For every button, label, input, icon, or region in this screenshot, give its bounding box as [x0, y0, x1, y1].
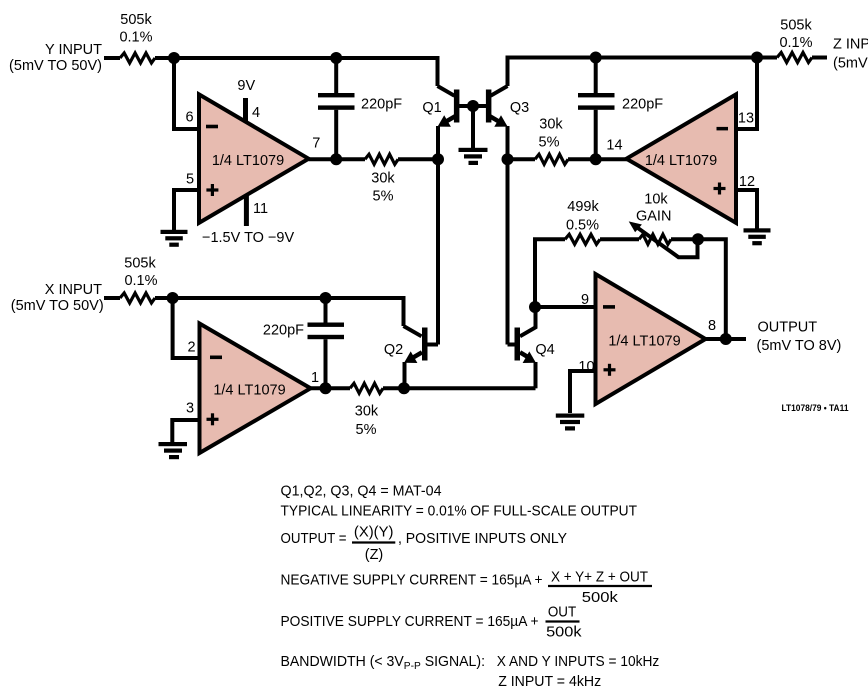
svg-text:1/4 LT1079: 1/4 LT1079 — [213, 383, 285, 399]
svg-text:1/4 LT1079: 1/4 LT1079 — [608, 334, 680, 350]
wire emitter rail Q2-Q4 — [404, 386, 536, 390]
wire Q1 emitter down to Q2 base — [436, 126, 440, 345]
pin 12 wire — [736, 190, 757, 230]
svg-text:0.5%: 0.5% — [566, 218, 599, 234]
svg-text:6: 6 — [185, 110, 193, 126]
svg-text:Y INPUT: Y INPUT — [45, 42, 102, 58]
wire X rail — [155, 298, 404, 326]
wire 30k to Q1 emitter node — [398, 157, 438, 161]
svg-text:5%: 5% — [356, 422, 377, 438]
op-amp U1d 1/4 LT1079 (Z, mirrored) — [626, 94, 736, 223]
resistor 505k 0.1% (Y input) — [119, 12, 155, 63]
wire pin 3 to ground — [172, 420, 199, 443]
svg-text:4: 4 — [252, 105, 260, 121]
svg-text:X AND Y INPUTS = 10kHz: X AND Y INPUTS = 10kHz — [497, 654, 660, 670]
node Y input label — [9, 42, 102, 74]
svg-text:Z INPUT = 4kHz: Z INPUT = 4kHz — [498, 674, 601, 690]
wire output — [706, 337, 747, 341]
node dot pin 9 junction — [529, 301, 541, 313]
resistor 30k 5% (X) — [350, 383, 383, 438]
node dot pin1/cap C2 — [320, 382, 332, 394]
wire pin 5 to ground — [174, 190, 199, 231]
wire bases to ground — [471, 106, 475, 148]
svg-text:500k: 500k — [546, 625, 582, 641]
pin 4 stub 9V — [237, 78, 260, 122]
svg-text:Q2: Q2 — [384, 342, 403, 358]
svg-text:30k: 30k — [355, 404, 379, 420]
svg-text:0.1%: 0.1% — [779, 35, 812, 51]
node dot cap C1 top — [330, 52, 342, 64]
svg-text:Q1: Q1 — [422, 100, 441, 116]
ground (pin 10) — [556, 414, 585, 431]
svg-text:GAIN: GAIN — [636, 209, 671, 225]
node dot 30k/cap C3 bottom — [590, 153, 602, 165]
svg-text:(5mV TO 50V): (5mV TO 50V) — [9, 58, 102, 74]
svg-text:7: 7 — [312, 136, 320, 152]
wire to U1d output — [596, 157, 628, 161]
svg-text:−1.5V TO −9V: −1.5V TO −9V — [202, 230, 294, 246]
svg-text:, POSITIVE INPUTS ONLY: , POSITIVE INPUTS ONLY — [398, 531, 567, 547]
svg-text:LT1078/79 • TA11: LT1078/79 • TA11 — [782, 403, 850, 414]
ground (Q1/Q3 bases) — [459, 148, 488, 165]
node dot Q2 emitter junction — [398, 382, 410, 394]
wire 499k to pot — [600, 237, 639, 241]
wire feedback up — [535, 239, 565, 307]
op-amp U1c 1/4 LT1079 (output) — [596, 274, 706, 404]
svg-text:5%: 5% — [539, 135, 560, 151]
text notes block — [281, 484, 660, 691]
node dot output — [720, 333, 732, 345]
svg-text:500k: 500k — [582, 590, 619, 606]
node dot Q1 emitter / Q2 base — [432, 153, 444, 165]
svg-text:11: 11 — [253, 201, 268, 217]
svg-text:9: 9 — [581, 292, 589, 308]
node Y junction dot (pin6 branch) — [168, 52, 180, 64]
svg-text:12: 12 — [739, 174, 755, 190]
capacitor 220pF C3 (Z) — [578, 58, 663, 160]
svg-text:TYPICAL LINEARITY = 0.01% OF: TYPICAL LINEARITY = 0.01% OF FULL-SCALE … — [281, 504, 638, 520]
svg-text:30k: 30k — [539, 117, 563, 133]
svg-text:Q1,Q2, Q3, Q4 = MAT-04: Q1,Q2, Q3, Q4 = MAT-04 — [281, 484, 442, 500]
wire pin 1 output — [311, 386, 350, 390]
svg-text:505k: 505k — [780, 18, 812, 34]
svg-text:2: 2 — [187, 340, 195, 356]
svg-text:1/4 LT1079: 1/4 LT1079 — [645, 153, 717, 169]
svg-text:220pF: 220pF — [263, 323, 304, 339]
resistor 505k 0.1% (Z input) — [777, 18, 813, 63]
node Z input label — [833, 37, 868, 72]
svg-text:499k: 499k — [567, 199, 599, 215]
svg-text:1: 1 — [311, 370, 319, 386]
wire X input to resistor — [104, 296, 120, 300]
wire Z resistor to label — [812, 56, 827, 60]
node dot pin13 branch — [751, 52, 763, 64]
node dot Q1/Q3 common base — [467, 100, 479, 112]
svg-text:505k: 505k — [120, 12, 152, 28]
wire Z top rail — [508, 58, 778, 87]
ground (pin 5) — [161, 230, 188, 247]
node OUTPUT label — [757, 320, 842, 355]
wire Q3 emitter down to Q4 base — [506, 126, 510, 345]
svg-text:POSITIVE SUPPLY CURRENT = 165µ: POSITIVE SUPPLY CURRENT = 165µA + — [281, 614, 539, 630]
wire pin6 branch — [174, 58, 199, 129]
pin 11 stub — [202, 195, 294, 246]
pin 13 wire — [736, 58, 757, 130]
resistor 499k 0.5% — [565, 199, 600, 244]
node dot cap C2 top — [320, 292, 332, 304]
capacitor 220pF C1 (Y) — [318, 58, 402, 159]
potentiometer 10k GAIN — [629, 192, 698, 258]
svg-text:OUT: OUT — [548, 605, 576, 621]
svg-text:14: 14 — [606, 138, 622, 154]
svg-text:NEGATIVE SUPPLY CURRENT = 165µ: NEGATIVE SUPPLY CURRENT = 165µA + — [281, 573, 543, 589]
transistor Q2 — [384, 326, 438, 388]
svg-text:5: 5 — [186, 172, 194, 188]
op-amp U1b 1/4 LT1079 (X) — [200, 324, 311, 454]
ground (pin 3) — [159, 442, 188, 459]
node dot wiper junction — [692, 233, 704, 245]
wire pin 7 output — [309, 157, 365, 161]
svg-text:X INPUT: X INPUT — [45, 282, 102, 298]
wire Y top rail — [155, 58, 438, 86]
ground (pin 12) — [744, 228, 771, 245]
svg-text:3: 3 — [186, 401, 194, 417]
svg-text:OUTPUT: OUTPUT — [758, 320, 818, 336]
svg-text:220pF: 220pF — [622, 97, 663, 113]
wire pot to output branch — [671, 239, 726, 339]
transistor Q4 — [508, 307, 555, 388]
node X input label — [11, 282, 104, 314]
svg-text:505k: 505k — [124, 256, 156, 272]
wire Y input to resistor — [104, 56, 120, 60]
svg-text:Q4: Q4 — [535, 342, 554, 358]
svg-text:9V: 9V — [237, 78, 255, 94]
capacitor 220pF C2 (X) — [263, 298, 344, 388]
wire 30k to emitter node — [383, 386, 404, 390]
wire pin 10 to ground — [570, 371, 596, 413]
svg-text:Q3: Q3 — [510, 100, 529, 116]
svg-text:(X)(Y): (X)(Y) — [354, 525, 394, 541]
svg-text:220pF: 220pF — [361, 97, 402, 113]
svg-text:8: 8 — [708, 318, 716, 334]
svg-text:(5mV TO 50V): (5mV TO 50V) — [833, 56, 868, 72]
svg-text:13: 13 — [738, 111, 754, 127]
svg-text:X + Y+ Z + OUT: X + Y+ Z + OUT — [551, 570, 648, 586]
resistor 30k 5% (Y) — [365, 154, 398, 204]
svg-text:BANDWIDTH (< 3VP-P SIGNAL):: BANDWIDTH (< 3VP-P SIGNAL): — [281, 654, 486, 672]
svg-text:1/4 LT1079: 1/4 LT1079 — [212, 153, 284, 169]
node dot Q3 emitter / Q4 base — [502, 153, 514, 165]
svg-text:Z INPUT: Z INPUT — [833, 37, 868, 53]
svg-text:(5mV TO 8V): (5mV TO 8V) — [757, 338, 842, 354]
node dot cap C3 top — [590, 52, 602, 64]
wire pin2 branch — [173, 298, 200, 358]
resistor 30k 5% (Z) — [508, 117, 596, 165]
svg-text:10k: 10k — [644, 192, 668, 208]
resistor 505k 0.1% (X input) — [120, 256, 158, 304]
transistor Q3 — [473, 86, 529, 127]
svg-text:OUTPUT =: OUTPUT = — [281, 531, 347, 547]
svg-text:0.1%: 0.1% — [124, 273, 157, 289]
transistor Q1 — [422, 86, 473, 127]
wire pin 9 — [535, 305, 596, 309]
svg-text:(Z): (Z) — [365, 547, 384, 563]
svg-text:(5mV TO 50V): (5mV TO 50V) — [11, 298, 104, 314]
node X junction dot (pin2 branch) — [167, 292, 179, 304]
svg-text:30k: 30k — [371, 171, 395, 187]
node dot pin7/cap — [330, 153, 342, 165]
op-amp U1a 1/4 LT1079 (Y) — [199, 94, 309, 223]
svg-text:0.1%: 0.1% — [119, 30, 152, 46]
svg-text:5%: 5% — [373, 189, 394, 205]
